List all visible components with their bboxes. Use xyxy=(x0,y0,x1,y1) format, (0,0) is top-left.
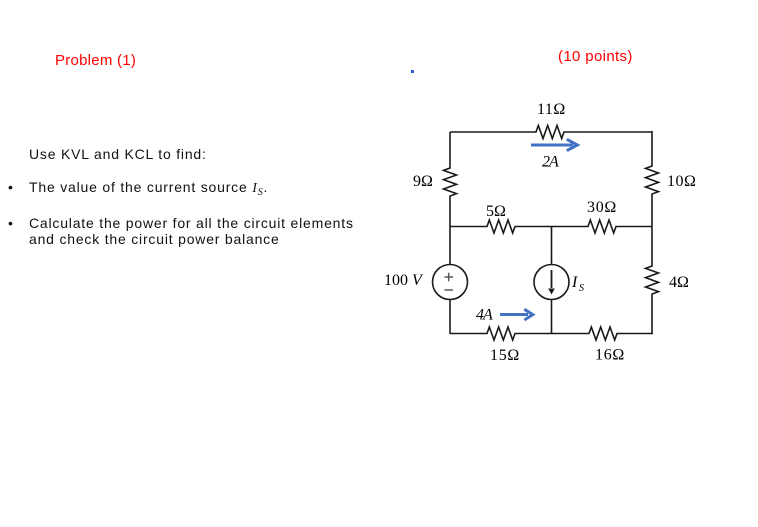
svg-text:9Ω: 9Ω xyxy=(413,173,433,190)
svg-text:15Ω: 15Ω xyxy=(490,347,520,364)
svg-text:S: S xyxy=(579,283,584,294)
svg-text:I: I xyxy=(571,274,578,291)
svg-text:2A: 2A xyxy=(542,154,559,171)
svg-text:4Ω: 4Ω xyxy=(669,274,689,291)
svg-text:5Ω: 5Ω xyxy=(486,203,506,220)
svg-text:30Ω: 30Ω xyxy=(587,199,617,216)
svg-text:16Ω: 16Ω xyxy=(595,347,625,364)
svg-text:11Ω: 11Ω xyxy=(537,101,566,118)
svg-text:4A: 4A xyxy=(476,307,493,324)
svg-text:100 V: 100 V xyxy=(384,272,424,289)
svg-text:10Ω: 10Ω xyxy=(667,173,696,190)
